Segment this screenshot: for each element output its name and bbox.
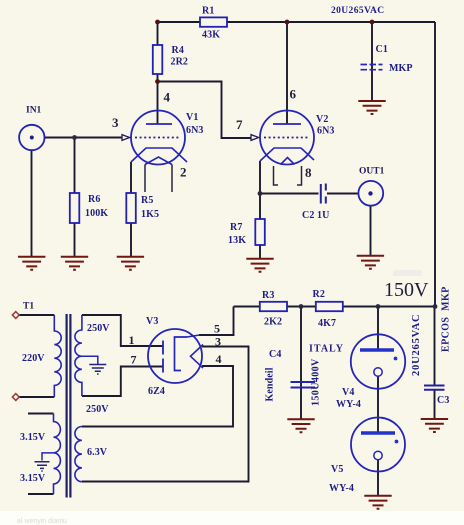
svg-text:R6: R6 bbox=[88, 194, 100, 205]
6.3V heater winding bbox=[75, 427, 82, 482]
svg-text:OUT1: OUT1 bbox=[359, 167, 385, 177]
svg-text:43K: 43K bbox=[202, 30, 220, 41]
ground (V5) bbox=[364, 496, 391, 509]
ground (R7) bbox=[246, 259, 273, 272]
primary winding 220V bbox=[54, 315, 61, 397]
svg-text:250V: 250V bbox=[86, 404, 109, 415]
svg-text:3.15V: 3.15V bbox=[20, 473, 46, 484]
3.15V center tap to ground bbox=[42, 453, 54, 461]
svg-text:20U265VAC: 20U265VAC bbox=[411, 314, 422, 376]
svg-text:R3: R3 bbox=[262, 290, 274, 301]
connector OUT1 bbox=[358, 181, 383, 206]
svg-text:R2: R2 bbox=[313, 289, 325, 300]
ground (R5) bbox=[117, 257, 144, 270]
svg-text:3.15V: 3.15V bbox=[20, 432, 46, 443]
svg-text:MKP: MKP bbox=[389, 63, 413, 74]
HV center tap to ground bbox=[82, 356, 98, 364]
svg-text:WY-4: WY-4 bbox=[336, 399, 361, 410]
svg-text:8: 8 bbox=[305, 165, 312, 180]
wire: V1 plate to V2 grid coupling bbox=[158, 82, 251, 139]
HV secondary winding 250V-0-250V bbox=[75, 315, 82, 396]
svg-text:ITALY: ITALY bbox=[309, 344, 344, 355]
resistor R7 bbox=[255, 219, 264, 245]
wire: V5 cathode to ground bbox=[377, 460, 379, 497]
svg-text:6.3V: 6.3V bbox=[87, 447, 108, 458]
wire: cathode node to C2 bbox=[260, 193, 319, 195]
svg-text:R1: R1 bbox=[202, 6, 214, 17]
svg-text:2: 2 bbox=[180, 165, 187, 180]
3.15V winding with center tap bbox=[54, 414, 61, 495]
wire: C2 to OUT1 bbox=[327, 193, 358, 195]
node: 150V at right rail bbox=[433, 304, 438, 309]
regulator tube V5 (WY-4) bbox=[351, 418, 405, 472]
svg-text:2K2: 2K2 bbox=[264, 317, 282, 328]
wire: right-side B+ rail down to 150V node bbox=[434, 22, 436, 307]
svg-text:V2: V2 bbox=[316, 114, 328, 125]
resistor R2 bbox=[316, 302, 343, 311]
svg-text:R7: R7 bbox=[230, 222, 242, 233]
svg-text:3: 3 bbox=[112, 115, 119, 130]
tube V1 (6N3) bbox=[122, 111, 187, 193]
wire: V1 cathode to R5 to ground bbox=[130, 162, 132, 257]
wire: primary bottom terminal lead bbox=[19, 396, 54, 398]
svg-text:150V: 150V bbox=[384, 279, 429, 301]
node: B+ rail at C1 bbox=[370, 20, 375, 25]
wire: V4 anode leg from 150V node bbox=[377, 307, 379, 351]
svg-text:4: 4 bbox=[164, 90, 171, 105]
wire: C3 leg from 150V rail to ground bbox=[434, 306, 436, 419]
svg-text:V5: V5 bbox=[331, 464, 343, 475]
tube V3 (6Z4 rectifier) bbox=[148, 329, 203, 383]
svg-text:al wenyin dianlu: al wenyin dianlu bbox=[17, 518, 67, 525]
svg-text:V3: V3 bbox=[146, 316, 158, 327]
wire: 150V node rail through R3 and R2 bbox=[234, 306, 436, 308]
resistor R3 bbox=[260, 302, 287, 311]
svg-text:R4: R4 bbox=[172, 45, 184, 56]
svg-text:1: 1 bbox=[129, 333, 135, 347]
wire: 3.15V winding top lead bbox=[28, 413, 54, 415]
ground (C4) bbox=[287, 419, 314, 432]
svg-text:C1: C1 bbox=[376, 44, 388, 55]
capacitor C1 bbox=[361, 64, 383, 66]
capacitor C4 bbox=[291, 382, 316, 388]
wire: V4 cathode to V5 anode bbox=[377, 376, 379, 433]
svg-text:Kendeil: Kendeil bbox=[265, 367, 276, 401]
svg-text:C3: C3 bbox=[437, 395, 449, 406]
wire: HV secondary top to V3 pin1 plate bbox=[82, 315, 163, 346]
svg-text:IN1: IN1 bbox=[26, 106, 42, 116]
svg-text:R5: R5 bbox=[141, 195, 153, 206]
ground (OUT1) bbox=[357, 256, 384, 269]
svg-text:20U265VAC: 20U265VAC bbox=[331, 6, 385, 16]
svg-text:13K: 13K bbox=[228, 235, 246, 246]
capacitor C3 bbox=[424, 386, 445, 390]
ground (3.15V center tap, small) bbox=[35, 462, 50, 471]
ground (C3) bbox=[421, 419, 448, 432]
terminal bottom bbox=[12, 394, 19, 401]
svg-text:2R2: 2R2 bbox=[171, 57, 189, 68]
svg-text:1K5: 1K5 bbox=[141, 209, 159, 220]
wire: IN1 to ground bbox=[31, 150, 33, 257]
node: B+ rail at V2 plate bbox=[285, 20, 290, 25]
svg-text:WY-4: WY-4 bbox=[329, 483, 354, 494]
svg-text:4: 4 bbox=[216, 352, 222, 366]
node: input / R6 top bbox=[72, 135, 77, 140]
ground (HV center tap, small) bbox=[89, 365, 106, 375]
svg-text:5: 5 bbox=[214, 322, 220, 336]
wire: V1 plate leg through R4 down to plate bbox=[157, 21, 159, 124]
svg-text:C2 1U: C2 1U bbox=[302, 210, 329, 221]
svg-text:3: 3 bbox=[215, 335, 221, 349]
wire: V3 pin3 heater down to 6.3V lower wire bbox=[82, 347, 249, 482]
wire: B+ top rail from above R4 to top-right corner bbox=[158, 21, 436, 23]
svg-text:EPCOS MKP: EPCOS MKP bbox=[441, 286, 452, 352]
capacitor C2 bbox=[321, 184, 326, 204]
node: V2 cathode / R7 / C2 bbox=[258, 191, 263, 196]
svg-text:150U400V: 150U400V bbox=[311, 358, 322, 406]
svg-text:6N3: 6N3 bbox=[186, 125, 204, 136]
resistor R4 bbox=[153, 45, 163, 74]
svg-text:7: 7 bbox=[236, 117, 243, 132]
wire: R6 leg from input node to ground bbox=[74, 138, 76, 258]
wire: V2 cathode node down through R7 to ground bbox=[259, 161, 261, 259]
wire: primary top terminal lead bbox=[19, 314, 54, 316]
svg-text:V4: V4 bbox=[342, 387, 354, 398]
tube V2 (6N3) bbox=[251, 111, 314, 186]
faint scan smudge bbox=[393, 270, 422, 276]
wire: IN1 to V1 grid bbox=[45, 137, 123, 139]
wire: C4 leg from 150V node to ground bbox=[300, 307, 302, 420]
resistor R1 bbox=[200, 17, 227, 26]
resistor R5 bbox=[126, 193, 136, 223]
node: 150V at R3-R2 / C4 bbox=[299, 304, 304, 309]
node: V1 plate / R4 bottom bbox=[155, 79, 160, 84]
wire: V2 plate leg bbox=[286, 21, 288, 124]
svg-text:6Z4: 6Z4 bbox=[148, 386, 165, 397]
wire: V3 pin5 cathode output up to 150V rail bbox=[199, 307, 234, 336]
regulator tube V4 (WY-4) bbox=[351, 334, 405, 388]
svg-text:6N3: 6N3 bbox=[317, 126, 335, 137]
core bbox=[67, 314, 71, 498]
svg-text:C4: C4 bbox=[269, 349, 281, 360]
svg-text:7: 7 bbox=[131, 353, 137, 367]
ground (R6) bbox=[61, 257, 88, 270]
resistor R6 bbox=[70, 193, 80, 223]
svg-text:250V: 250V bbox=[87, 323, 110, 334]
wire: C1 top leg bbox=[371, 22, 373, 101]
svg-text:100K: 100K bbox=[85, 208, 108, 219]
connector IN1 bbox=[19, 125, 44, 150]
wire: OUT1 to ground bbox=[370, 207, 372, 257]
wire: HV secondary bottom to V3 pin7 plate bbox=[82, 367, 163, 397]
ground (IN1) bbox=[18, 257, 45, 270]
ground (C1) bbox=[358, 101, 385, 114]
terminal top bbox=[12, 312, 19, 319]
wire: 3.15V winding bottom lead bbox=[28, 493, 54, 495]
node: 150V at V4 bbox=[376, 304, 381, 309]
wire: V3 pin4 heater down to 6.3V upper wire bbox=[82, 366, 233, 427]
svg-text:V1: V1 bbox=[186, 112, 198, 123]
svg-text:4K7: 4K7 bbox=[318, 318, 336, 329]
node: B+ rail at R4 bbox=[155, 20, 160, 25]
svg-text:6: 6 bbox=[290, 87, 297, 102]
svg-text:220V: 220V bbox=[22, 353, 45, 364]
svg-text:T1: T1 bbox=[23, 302, 34, 312]
